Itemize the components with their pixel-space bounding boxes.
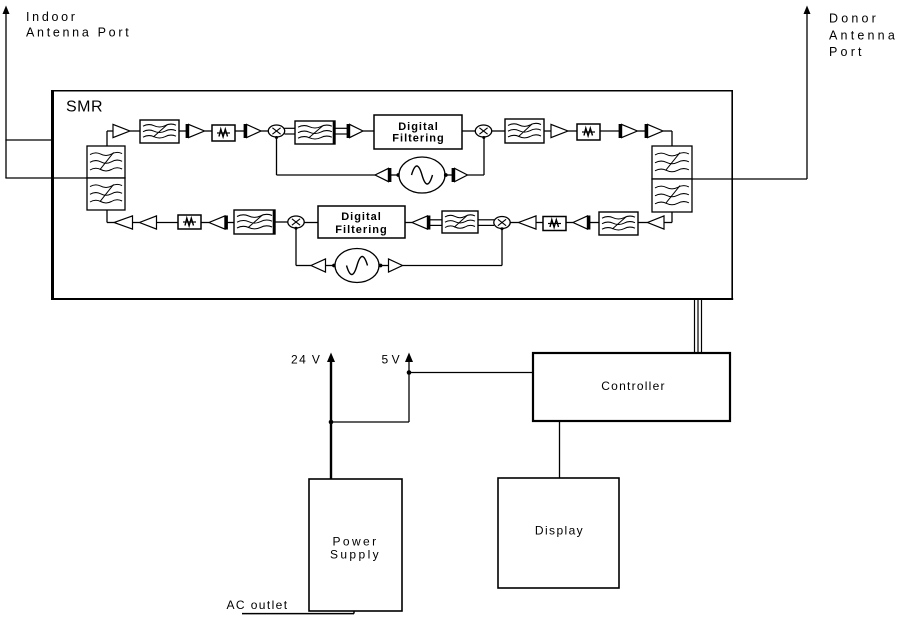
wire LO1 right amp to M2: [468, 136, 486, 175]
wire AT1 to amp3: [235, 130, 244, 132]
wire F4 to amp9: [590, 222, 599, 224]
amplifier LO2 buffer right: [389, 259, 403, 272]
wire M1 to LO1 loop: [275, 136, 375, 175]
attenuator AT2: [577, 124, 600, 140]
wire U1 to mixer M2: [462, 130, 475, 132]
wire amp14 to left duplexer: [107, 210, 114, 223]
SMR enclosure box: [51, 90, 733, 300]
amplifier A10: [519, 216, 537, 229]
duplexer left (indoor): [87, 146, 125, 210]
wire duplexer top to amp1: [107, 131, 113, 146]
label Donor Antenna Port: [829, 11, 898, 59]
amplifier A14: [114, 216, 133, 229]
oscillator OSC2: [335, 249, 379, 283]
attenuator AT3: [543, 217, 566, 231]
wire oscillator to LO1 right amp: [444, 173, 452, 177]
wire amp5 to attenuator AT2: [568, 130, 577, 132]
svg-text:Antenna: Antenna: [829, 29, 898, 43]
wire amp8 to filter F4: [638, 222, 648, 224]
wire amp12 to attenuator AT4: [201, 222, 209, 224]
wire AT3 to amp10: [536, 222, 543, 224]
amplifier A9: [573, 216, 589, 230]
svg-text:Port: Port: [829, 45, 865, 59]
24V supply line with arrow: [327, 353, 335, 480]
wire amp11 to F5 (double): [430, 220, 442, 226]
wire stub to SMR edge: [5, 139, 51, 141]
digital filtering block U1: [374, 115, 462, 149]
svg-text:Filtering: Filtering: [392, 133, 444, 145]
wire F5 to M3 (double): [478, 220, 494, 226]
control bus wires SMR to controller: [695, 300, 702, 353]
wire AT4 to amp13: [157, 222, 179, 224]
wire controller to display: [559, 421, 561, 478]
svg-text:Digital: Digital: [398, 121, 439, 133]
filter F5: [442, 211, 478, 233]
attenuator AT4: [178, 215, 201, 229]
svg-text:AC outlet: AC outlet: [227, 598, 289, 612]
svg-text:Antenna Port: Antenna Port: [26, 26, 131, 40]
junction on 24V line: [329, 420, 334, 425]
wire LO2 right amp to M3: [403, 227, 504, 265]
oscillator OSC1: [399, 157, 445, 193]
power supply box: [309, 479, 402, 611]
duplexer right (donor): [652, 146, 692, 212]
mixer M4: [288, 216, 304, 228]
amplifier A3: [245, 124, 261, 138]
svg-text:SMR: SMR: [66, 99, 103, 116]
attenuator AT1: [212, 125, 235, 141]
wire F1 to amp2: [179, 130, 186, 132]
filter F2: [295, 121, 335, 145]
amplifier A13: [140, 216, 157, 229]
amplifier A11: [412, 216, 429, 230]
filter F6: [234, 210, 275, 235]
wire M4 to filter F6: [275, 221, 288, 223]
controller box: [533, 353, 730, 421]
amplifier A5: [551, 124, 568, 137]
5V supply line with arrow: [405, 353, 413, 423]
wire amp7 to right duplexer: [663, 131, 672, 146]
amplifier A4: [348, 124, 363, 138]
wire F6 to amp12: [228, 222, 235, 224]
svg-text:24 V: 24 V: [291, 352, 321, 366]
wire LO2 left amp to oscillator: [326, 264, 336, 268]
filter F1: [140, 120, 179, 143]
wire amp2 to attenuator AT1: [205, 130, 213, 132]
wire AT2 to amp6: [600, 130, 619, 132]
amplifier LO1 buffer left: [375, 168, 390, 182]
wire amp4 to digital filter: [363, 130, 374, 132]
mixer M1: [268, 125, 284, 137]
wire M2 to filter F3: [492, 130, 505, 132]
display box: [498, 478, 619, 588]
wire amp10 to mixer M3: [510, 222, 518, 224]
svg-text:Filtering: Filtering: [335, 224, 387, 236]
svg-text:Donor: Donor: [829, 11, 879, 25]
wire duplexer to donor antenna: [692, 178, 807, 180]
svg-text:5V: 5V: [382, 352, 404, 366]
wire amp13 to amp14: [133, 222, 140, 224]
wire U2 to mixer M4: [304, 222, 318, 224]
svg-text:Controller: Controller: [601, 379, 666, 393]
svg-text:Display: Display: [535, 524, 584, 538]
svg-text:Indoor: Indoor: [26, 10, 78, 24]
filter F3: [505, 119, 544, 143]
wire oscillator to LO2 right amp: [379, 264, 389, 268]
wire A11 to digital filter U2: [405, 222, 412, 224]
amplifier A12: [209, 216, 227, 230]
amplifier A1 uplink input: [113, 124, 130, 137]
donor antenna port arrow: [804, 6, 811, 180]
amplifier A7: [646, 124, 663, 138]
amplifier LO1 buffer right: [453, 168, 468, 182]
amplifier LO2 buffer left: [311, 259, 326, 272]
mixer M3: [494, 217, 510, 229]
indoor antenna port arrow: [3, 6, 10, 179]
wire 5V to controller: [409, 372, 533, 374]
amplifier A8 downlink input: [648, 216, 665, 229]
AC outlet wire: [242, 611, 354, 614]
digital filtering block U2: [318, 206, 405, 238]
wire right duplexer to amp8: [664, 212, 672, 223]
wire M1 to F2 (double): [285, 128, 296, 134]
junction on 5V line: [407, 370, 412, 375]
svg-text:Digital: Digital: [341, 211, 382, 223]
label Indoor Antenna Port: [26, 10, 131, 39]
wire amp9 to attenuator AT3: [566, 222, 573, 224]
mixer M2: [475, 125, 491, 137]
wire indoor antenna to duplexer: [5, 177, 87, 179]
wire amp3 to mixer M1: [261, 130, 269, 132]
amplifier A2: [187, 124, 205, 138]
wire amp1 to filter F1: [130, 130, 140, 132]
wire M4 to LO2 loop: [295, 227, 312, 266]
wire 24V junction to 5V line: [331, 421, 409, 423]
wire amp6 to amp7: [638, 130, 646, 132]
wire F2 to amp4 (double): [335, 128, 347, 134]
wire LO1 left amp to oscillator: [391, 173, 400, 177]
amplifier A6: [620, 124, 638, 138]
svg-text:Supply: Supply: [330, 548, 381, 562]
wire F3 to amp5: [544, 130, 551, 132]
filter F4: [599, 212, 638, 235]
